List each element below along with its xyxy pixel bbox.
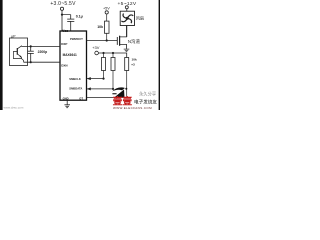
svg-text:2200p: 2200p [38,50,48,54]
fan M1 box [120,11,134,25]
svg-text:电子发烧友: 电子发烧友 [134,99,157,106]
svg-text:N沟道: N沟道 [128,38,141,45]
svg-text:+5V: +5V [103,6,110,10]
svg-text:+3.0~5.5V: +3.0~5.5V [50,1,76,7]
svg-text:www.dzsc.com: www.dzsc.com [4,105,24,109]
op-amp U1 MAX6641 box [60,31,87,100]
svg-text:10k: 10k [97,25,103,29]
transistor Q1 thermal diode [14,46,24,62]
wire fan to drain [126,26,128,37]
svg-text:SMBDATA: SMBDATA [69,87,82,91]
svg-text:DXP: DXP [61,42,67,46]
watermark bird logo [112,87,127,97]
wire +3V rail [99,53,127,58]
arrow OT output [116,96,120,99]
junction R2-SMBDATA [112,88,114,90]
microprocessor sensor box uP [10,38,28,66]
capacitor C2 2200p [28,46,34,62]
capacitor C1 0.1u [67,15,74,31]
svg-text:永久分享: 永久分享 [139,90,157,97]
svg-text:VCC: VCC [62,29,68,33]
wire +5V to R4 [106,14,108,21]
svg-text:PWMOUT: PWMOUT [70,37,83,41]
terminal VCC [60,7,63,10]
terminal +3V [95,51,99,55]
junction R1-SMBCLK [102,78,104,80]
svg-text:MAX6641: MAX6641 [63,53,77,57]
junction rail-R1 [102,52,104,54]
svg-text:OT: OT [79,97,83,101]
junction C2 bottom [30,61,32,63]
terminal +5V [105,11,108,14]
ground at Q2 source [124,49,130,51]
svg-text:DXN: DXN [61,63,67,67]
transistor Q2 N-channel MOSFET [117,26,126,49]
ground under U1 [64,100,70,108]
resistor R2 10k [112,53,114,58]
arrow emitter Q1 [20,55,22,57]
junction C2 top [30,45,32,47]
junction R4-PWM [106,39,108,41]
fan M1 impeller [121,14,133,24]
svg-text:SMBCLK: SMBCLK [69,77,81,81]
wire R4 to PWM line [106,33,108,40]
svg-text:+3V: +3V [92,45,100,50]
svg-text:μP: μP [11,34,16,38]
wire SMBCLK [87,78,104,80]
resistor R4 10k [105,21,110,33]
wire VCC vertical [61,11,63,32]
terminal fan supply [125,6,128,9]
wire PWMOUT [87,40,118,42]
svg-text:WWW.ELECFANS.COM: WWW.ELECFANS.COM [113,106,152,110]
resistor R1 10k [103,53,105,58]
arrow SMBCLK into U1 [87,77,91,80]
resistor R3 10k [125,58,129,71]
wire SMBDATA [87,88,113,90]
wire supply to fan [126,9,128,11]
junction VCC-C1 [61,14,63,16]
wire DXN [24,61,60,63]
svg-text:GND: GND [63,96,69,100]
svg-text:0.1μ: 0.1μ [76,15,83,19]
arrow SMBDATA into U1 [87,87,91,90]
wire OT [87,96,127,98]
svg-text:风扇: 风扇 [136,15,144,22]
wire C1 branch [62,14,71,16]
wire DXP [22,45,61,47]
junction rail-R2 [112,52,114,54]
svg-text:×3: ×3 [131,63,135,67]
svg-text:10k: 10k [132,58,137,62]
